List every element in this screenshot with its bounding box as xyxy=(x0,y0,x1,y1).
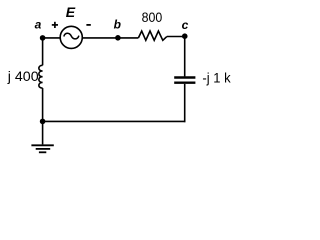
polarity + of source xyxy=(52,22,58,28)
svg-text:b: b xyxy=(114,18,121,32)
wire: capacitor to bottom return xyxy=(184,84,186,122)
wire: inductor to bottom junction xyxy=(42,88,44,121)
svg-text:c: c xyxy=(182,18,189,32)
node b xyxy=(115,35,121,41)
wire: bottom return xyxy=(43,120,186,122)
wire: resistor to node c xyxy=(167,36,185,38)
node a xyxy=(40,35,46,41)
resistor R 800 xyxy=(138,31,166,40)
polarity - of source xyxy=(86,24,90,26)
junction node (bottom left) xyxy=(40,119,46,125)
svg-text:E: E xyxy=(66,4,76,20)
wire: node a to voltage source xyxy=(43,37,61,39)
svg-text:j 400: j 400 xyxy=(7,68,39,84)
ground xyxy=(31,145,53,152)
wire: voltage source to resistor xyxy=(83,37,139,39)
svg-text:800: 800 xyxy=(142,9,163,25)
svg-text:-j 1 k: -j 1 k xyxy=(202,69,231,85)
svg-text:a: a xyxy=(35,17,42,31)
voltage source E xyxy=(60,26,82,48)
capacitor C -j1k xyxy=(174,78,195,83)
wire: node a down to inductor xyxy=(42,38,44,65)
wire: junction down to ground xyxy=(42,121,44,144)
wire: node c down to capacitor xyxy=(184,36,186,76)
node c xyxy=(182,33,188,39)
inductor L j400 xyxy=(39,65,43,88)
